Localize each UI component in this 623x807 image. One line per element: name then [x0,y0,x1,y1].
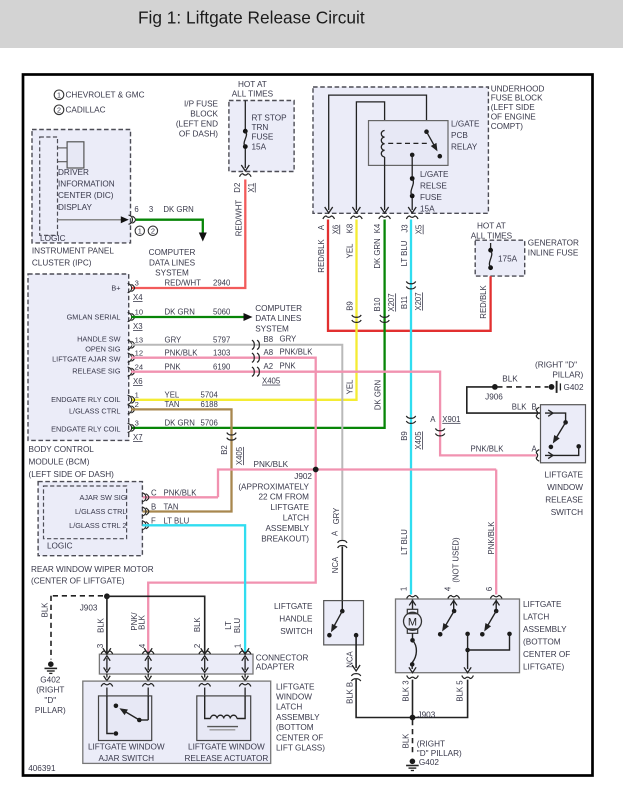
svg-text:G402: G402 [564,383,584,392]
wire relay switch feed to pin A [329,95,427,210]
svg-text:24: 24 [135,362,143,371]
svg-text:CENTER OF: CENTER OF [523,650,570,659]
wire relay coil feed to pin K8 [356,102,384,210]
svg-text:SYSTEM: SYSTEM [255,324,289,333]
svg-text:RELEASE: RELEASE [545,495,583,504]
svg-text:A: A [317,224,326,230]
svg-text:BODY CONTROL: BODY CONTROL [29,445,95,454]
svg-text:BLK: BLK [502,375,518,384]
svg-text:REAR WINDOW WIPER MOTOR: REAR WINDOW WIPER MOTOR [31,565,154,574]
svg-text:(APPROXIMATELY: (APPROXIMATELY [238,482,309,491]
svg-text:J906: J906 [485,392,503,401]
svg-text:G402: G402 [40,675,60,684]
svg-text:WINDOW: WINDOW [547,483,583,492]
svg-text:ENDGATE RLY COIL: ENDGATE RLY COIL [51,424,120,433]
svg-text:L/GLASS CTRL: L/GLASS CTRL [69,406,121,415]
wire BLK handle switch to J903 [356,680,412,718]
svg-text:YEL: YEL [345,379,354,394]
svg-text:X207: X207 [414,292,423,310]
wire BLK release switch ground leg [467,387,540,413]
svg-text:B: B [345,682,354,687]
ground post G402 [556,381,558,393]
BCM pin connectors [128,283,132,292]
release actuator solenoid [205,696,211,719]
svg-text:X5: X5 [415,224,424,234]
connector X5 pin J3 [406,216,418,219]
svg-text:DK GRN: DK GRN [165,419,195,428]
svg-text:WINDOW: WINDOW [276,692,312,701]
wire RED/WHT 2940 [131,180,245,289]
wire handle switch output NCA [355,635,357,668]
adapter entry connectors and arrows [103,648,111,654]
svg-text:(CENTER OF LIFTGATE): (CENTER OF LIFTGATE) [31,576,125,585]
svg-text:LT: LT [224,621,233,630]
svg-text:ENDGATE RLY COIL: ENDGATE RLY COIL [51,395,120,404]
svg-text:ALL TIMES: ALL TIMES [232,89,274,98]
svg-text:(LEFT SIDE: (LEFT SIDE [491,103,536,112]
svg-text:INSTRUMENT PANEL: INSTRUMENT PANEL [32,246,114,255]
node J902 [313,467,319,473]
svg-text:1303: 1303 [213,348,230,357]
ajar switch contacts [107,696,114,734]
svg-text:GMLAN SERIAL: GMLAN SERIAL [67,312,121,321]
wire IPC output grey [58,219,126,221]
latch motor M1 [412,600,414,610]
rear window wiper motor box [38,482,142,556]
svg-text:PNK: PNK [165,362,182,371]
connector X901 pin A on PNK [435,428,444,430]
svg-text:X3: X3 [133,322,143,331]
generator inline fuse box [475,240,525,276]
node J903 left [104,593,110,599]
svg-text:X1: X1 [247,183,256,193]
wiper motor logic box [44,486,127,539]
svg-text:LOGIC: LOGIC [47,542,73,551]
svg-text:3: 3 [135,279,139,288]
node J906 [492,384,498,390]
svg-text:BLK: BLK [40,602,49,618]
svg-text:LT BLU: LT BLU [400,240,409,266]
svg-text:RELSE: RELSE [420,181,447,190]
svg-text:HANDLE: HANDLE [279,614,313,623]
header title bar [0,0,623,48]
svg-text:LIFTGATE: LIFTGATE [274,602,313,611]
svg-text:DATA LINES: DATA LINES [149,258,196,267]
node J903 right [410,715,416,721]
svg-text:X6: X6 [331,225,340,235]
svg-text:5060: 5060 [213,308,231,317]
svg-text:A8: A8 [264,348,274,357]
svg-text:DISPLAY: DISPLAY [58,203,93,212]
svg-text:BLK: BLK [193,617,202,633]
adapter exit stubs [106,674,108,678]
svg-text:D2: D2 [233,183,242,193]
wire PNK 6190 [131,372,537,456]
svg-text:(RIGHT: (RIGHT [36,686,64,695]
ground G402 right D pillar [410,759,416,765]
wire BLK dashed to G402 left [51,595,103,597]
body control module BCM box [28,274,129,440]
svg-text:LATCH: LATCH [276,703,302,712]
liftgate handle switch S1 box [324,601,364,645]
svg-text:"D" PILLAR): "D" PILLAR) [417,749,462,758]
svg-text:DK GRN: DK GRN [165,308,195,317]
liftgate release fuse 15A [410,176,415,181]
svg-text:LIFTGATE AJAR SW: LIFTGATE AJAR SW [52,354,120,363]
release switch pin B connector [536,407,539,419]
svg-text:B9: B9 [400,431,409,441]
connector X207 pin B10 on DK GRN [380,315,389,317]
svg-text:HANDLE SW: HANDLE SW [77,334,120,343]
svg-text:PNK: PNK [280,361,297,370]
underhood fuse block box [313,87,488,213]
svg-text:GRY: GRY [332,507,341,525]
svg-text:1: 1 [57,91,61,100]
svg-text:I/P FUSE: I/P FUSE [184,99,219,108]
svg-text:22 CM FROM: 22 CM FROM [259,493,310,502]
latch switch pin 6 [495,600,497,612]
svg-text:ASSEMBLY: ASSEMBLY [265,524,309,533]
connector X1 [240,174,252,177]
connector pin K4 [379,216,391,219]
svg-text:X405: X405 [414,431,423,450]
svg-text:AJAR SW SIG: AJAR SW SIG [79,493,126,502]
svg-text:ASSEMBLY: ASSEMBLY [523,625,567,634]
svg-text:COMPUTER: COMPUTER [149,248,196,257]
svg-text:5706: 5706 [201,419,218,428]
svg-text:(BOTTOM: (BOTTOM [276,723,314,732]
svg-text:J902: J902 [294,472,312,481]
svg-text:BLK: BLK [96,617,105,633]
svg-text:ALL TIMES: ALL TIMES [471,231,513,240]
diagram border frame [23,75,593,776]
svg-text:C: C [151,488,157,497]
svg-text:X405: X405 [262,377,281,386]
wire NCA handle switch feed [341,547,343,601]
svg-text:(LEFT END: (LEFT END [176,119,218,128]
svg-text:LATCH: LATCH [283,513,309,522]
svg-text:2: 2 [193,644,202,648]
RT STOP TRN fuse 15A [244,101,246,130]
wire BLK J903 to adapter pin 2 [107,596,205,652]
svg-text:DK GRN: DK GRN [374,380,383,410]
assembly entry connectors [101,684,113,687]
svg-text:2: 2 [135,400,139,409]
wire BLK dashed to G402 right D pillar [497,386,548,388]
svg-text:NCA: NCA [345,650,354,667]
svg-text:A2: A2 [264,362,274,371]
svg-text:BLOCK: BLOCK [190,109,218,118]
wire TAN 6188 [131,409,232,511]
IPC output pin connector [129,215,133,224]
circled variant 1 [135,226,144,235]
svg-text:J903: J903 [418,710,436,719]
svg-text:DATA LINES: DATA LINES [255,314,302,323]
svg-text:1: 1 [399,587,408,591]
wire PNK/BLK 1303 [131,358,316,470]
IPC logic box [40,137,58,235]
wire YEL 5704 [131,220,357,400]
wire BLK 5 to J903 [413,680,468,718]
svg-text:BLU: BLU [233,618,242,634]
svg-text:ADAPTER: ADAPTER [256,663,295,672]
svg-text:10: 10 [135,308,143,317]
svg-text:2940: 2940 [213,279,231,288]
svg-text:CHEVROLET & GMC: CHEVROLET & GMC [66,91,145,100]
svg-text:BLK: BLK [345,688,354,704]
svg-text:PNK/BLK: PNK/BLK [471,444,505,453]
svg-text:TAN: TAN [164,502,179,511]
latch thermal element [412,633,414,638]
svg-text:OF ENGINE: OF ENGINE [491,112,537,121]
wire BLK J903 to adapter pin 3 [106,596,108,652]
svg-text:L/GATE: L/GATE [451,119,480,128]
latch switch pin 4 [453,600,455,612]
svg-text:(LEFT SIDE OF DASH): (LEFT SIDE OF DASH) [29,470,115,479]
svg-text:3: 3 [149,205,153,214]
svg-text:HOT AT: HOT AT [238,80,267,89]
svg-text:RED/BLK: RED/BLK [479,285,488,319]
svg-text:15A: 15A [252,142,267,151]
svg-text:4: 4 [444,586,453,591]
svg-text:2: 2 [57,106,61,115]
svg-text:"D": "D" [44,696,56,705]
svg-text:406391: 406391 [28,764,56,773]
svg-text:SYSTEM: SYSTEM [155,268,189,277]
svg-text:YEL: YEL [346,243,355,258]
svg-text:(BOTTOM: (BOTTOM [523,637,561,646]
svg-text:MODULE (BCM): MODULE (BCM) [29,457,90,466]
svg-text:PILLAR): PILLAR) [552,371,583,380]
liftgate latch assembly box [396,599,520,673]
svg-text:PCB: PCB [451,131,468,140]
svg-text:3: 3 [135,418,139,427]
svg-text:RELAY: RELAY [451,142,478,151]
svg-text:(NOT USED): (NOT USED) [451,537,460,583]
svg-text:BLK 3: BLK 3 [402,680,411,701]
svg-text:DK GRN: DK GRN [163,205,193,214]
svg-text:LIFTGATE: LIFTGATE [523,600,562,609]
svg-text:B2: B2 [220,445,229,455]
svg-text:OF DASH): OF DASH) [179,130,218,139]
connector X405 pin B9 on LT BLU [406,416,415,418]
svg-text:FUSE: FUSE [420,193,442,202]
handle switch contacts [341,601,343,612]
svg-text:TAN: TAN [165,400,180,409]
svg-text:PNK/BLK: PNK/BLK [280,347,314,356]
svg-text:B10: B10 [373,297,382,312]
release switch pin A connector [536,450,539,462]
svg-text:OPEN SIG: OPEN SIG [85,344,121,353]
svg-text:RED/WHT: RED/WHT [165,279,202,288]
relay output node to fuse [410,153,415,158]
svg-text:(RIGHT "D": (RIGHT "D" [535,360,577,369]
instrument panel cluster IPC box [32,130,131,243]
svg-text:1: 1 [138,227,142,236]
svg-text:B8: B8 [264,335,274,344]
svg-text:BREAKOUT): BREAKOUT) [261,534,309,543]
adapter pass-through arrows [106,658,108,670]
svg-text:X207: X207 [387,293,396,311]
svg-text:LIFTGATE: LIFTGATE [276,682,315,691]
svg-text:FUSE: FUSE [252,133,274,142]
svg-text:G402: G402 [419,758,439,767]
wire DK GRN to computer data lines [136,220,203,233]
svg-text:M: M [408,616,417,628]
svg-text:BLK: BLK [512,402,528,411]
svg-text:1: 1 [234,644,243,648]
svg-text:CONNECTOR: CONNECTOR [256,654,309,663]
relay coil [381,131,384,157]
circled variant 2 [148,226,157,235]
svg-text:6: 6 [134,205,138,214]
svg-text:PNK/BLK: PNK/BLK [164,488,198,497]
svg-text:175A: 175A [498,255,518,264]
svg-text:A: A [330,530,339,536]
svg-text:6188: 6188 [201,400,218,409]
latch internal common [465,632,470,637]
svg-text:LT BLU: LT BLU [400,529,409,555]
wire DK GRN 5060 GMLAN [131,316,246,318]
svg-text:INLINE FUSE: INLINE FUSE [528,249,579,258]
svg-text:LATCH: LATCH [523,612,549,621]
connector pin A handle switch [338,546,347,548]
I/P fuse block box [229,101,294,172]
connector X207 pin B11 on LT BLU [406,281,415,283]
ground G402 left D pillar [48,661,54,667]
svg-text:GRY: GRY [165,335,183,344]
legend key 2 Cadillac [54,105,64,115]
svg-text:RED/WHT: RED/WHT [235,200,244,237]
release switch contacts [545,413,566,421]
svg-text:SWITCH: SWITCH [551,508,583,517]
svg-text:B11: B11 [400,296,409,309]
svg-text:HOT AT: HOT AT [477,222,506,231]
svg-text:DK GRN: DK GRN [373,238,382,268]
svg-text:CLUSTER (IPC): CLUSTER (IPC) [32,258,92,267]
generator inline fuse 175A [490,243,492,248]
svg-text:LIFTGATE WINDOW: LIFTGATE WINDOW [188,742,265,751]
liftgate window release actuator box [197,696,251,741]
svg-text:AJAR SWITCH: AJAR SWITCH [99,754,155,763]
liftgate window release switch S2 box [541,405,586,463]
svg-text:A: A [430,415,436,424]
legend key 1 Chevrolet & GMC [54,90,64,100]
svg-text:X901: X901 [442,415,460,424]
svg-text:B: B [151,502,156,511]
svg-text:2: 2 [151,227,155,236]
wire LT BLU wiper to adapter [142,525,245,652]
svg-text:PILLAR): PILLAR) [35,706,66,715]
svg-text:YEL: YEL [165,390,180,399]
svg-text:J903: J903 [80,603,98,612]
liftgate window latch assembly box [83,681,271,763]
svg-text:FUSE BLOCK: FUSE BLOCK [491,94,543,103]
svg-text:PNK/BLK: PNK/BLK [487,521,496,555]
connector pin K8 [351,216,363,219]
svg-text:CENTER (DIC): CENTER (DIC) [58,191,114,200]
connector X405 pin B2 on TAN [227,433,236,435]
svg-text:B: B [532,402,537,411]
wire BLK 3 to J903 [412,680,414,718]
svg-text:UNDERHOOD: UNDERHOOD [491,84,545,93]
svg-text:12: 12 [135,348,143,357]
svg-text:RED/BLK: RED/BLK [317,239,326,273]
svg-text:1: 1 [135,390,139,399]
svg-text:6190: 6190 [213,362,231,371]
wire PNK/BLK J902 distribution [142,496,218,498]
svg-text:LIFTGATE: LIFTGATE [270,503,309,512]
svg-text:CENTER OF: CENTER OF [276,733,323,742]
svg-text:LIFTGATE: LIFTGATE [544,470,583,479]
svg-text:CADILLAC: CADILLAC [66,106,106,115]
svg-text:NCA: NCA [331,556,340,573]
wire LT BLU [410,220,412,595]
svg-text:L/GATE: L/GATE [420,170,449,179]
driver information center DIC display [67,142,84,168]
svg-text:K4: K4 [373,223,382,233]
svg-text:BLK: BLK [401,733,410,749]
svg-text:B+: B+ [111,283,120,292]
svg-text:5797: 5797 [213,335,230,344]
wire GRY 5797 [131,345,342,540]
relay actuation dashed link [388,142,429,144]
svg-text:Fig 1: Liftgate Release Circui: Fig 1: Liftgate Release Circuit [138,7,365,27]
svg-text:LIFT GLASS): LIFT GLASS) [276,743,325,752]
svg-text:X4: X4 [133,293,143,302]
svg-text:TRN: TRN [252,123,269,132]
svg-text:RELEASE SIG: RELEASE SIG [72,366,121,375]
svg-text:GRY: GRY [280,334,298,343]
connector pin B below handle switch [351,679,360,681]
connector X6 pin A [323,216,335,219]
svg-text:L/GLASS CTRL 2: L/GLASS CTRL 2 [69,521,126,530]
wire DK GRN 5706 [131,220,385,428]
svg-text:LOGIC: LOGIC [40,234,66,243]
svg-text:BLK 5: BLK 5 [455,680,464,702]
svg-text:X6: X6 [133,377,143,386]
svg-text:LT BLU: LT BLU [164,516,190,525]
latch assembly entry connectors [407,596,419,599]
liftgate window ajar switch box [99,696,152,741]
svg-text:GENERATOR: GENERATOR [528,238,579,247]
svg-text:5704: 5704 [201,390,219,399]
relay switch [424,129,429,134]
svg-text:ASSEMBLY: ASSEMBLY [276,713,320,722]
svg-text:RELEASE ACTUATOR: RELEASE ACTUATOR [184,754,268,763]
wiper motor pin connectors [142,493,146,502]
svg-text:COMPT): COMPT) [491,122,524,131]
connector adapter box [99,654,253,674]
svg-text:INFORMATION: INFORMATION [58,179,115,188]
svg-text:K8: K8 [346,224,355,234]
svg-text:(RIGHT: (RIGHT [417,739,445,748]
svg-text:L/GLASS CTRL: L/GLASS CTRL [75,507,127,516]
svg-text:SWITCH: SWITCH [280,627,312,636]
latch bottom connectors [407,676,419,679]
svg-text:LIFTGATE): LIFTGATE) [523,662,565,671]
svg-text:BLK: BLK [137,614,146,630]
svg-text:A: A [532,444,538,453]
svg-text:3: 3 [96,644,105,648]
wire BLK dashed to G402 right [412,720,414,756]
svg-text:DRIVER: DRIVER [58,168,89,177]
liftgate PCB relay U1 box [369,121,449,166]
svg-text:15A: 15A [420,204,435,213]
wire RED/BLK battery feed [328,220,491,331]
svg-text:B9: B9 [346,301,355,311]
svg-text:PNK/BLK: PNK/BLK [165,348,199,357]
